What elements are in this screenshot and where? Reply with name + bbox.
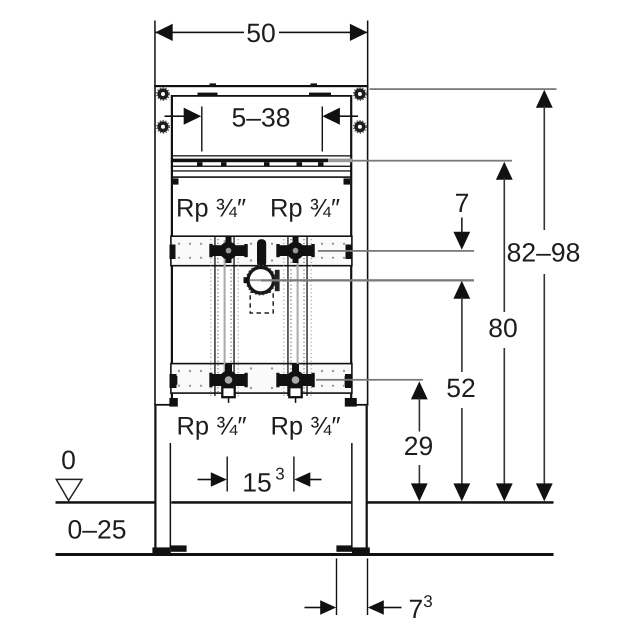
dimension 5-38: left tail line <box>165 115 185 117</box>
lower fitting left: left end cap <box>209 373 212 388</box>
left foot plate <box>152 547 170 553</box>
lower fitting right: left end cap <box>276 373 279 388</box>
leader from lower fitting (grey) <box>316 379 423 381</box>
support rail tab 1 <box>197 162 203 166</box>
lower plate left nub <box>170 374 177 388</box>
top fitting left: hub ring <box>226 248 232 254</box>
svg-text:52: 52 <box>446 373 475 403</box>
dimension 15: right arrowhead <box>294 472 310 486</box>
dimension 50: extension line left <box>154 21 156 87</box>
svg-text:Rp ¾″: Rp ¾″ <box>176 195 246 223</box>
dimension 7-3: left arrowhead <box>320 600 336 614</box>
dimension 52: up arrowhead <box>453 281 470 299</box>
support rail end tab right <box>344 178 351 184</box>
right leg inner line <box>351 443 353 549</box>
top fitting left: right end cap <box>244 244 247 257</box>
top fitting right: right end cap <box>311 244 314 257</box>
lower plate dots <box>178 367 345 389</box>
svg-text:Rp ¾″: Rp ¾″ <box>270 195 340 223</box>
top fitting left: stub above <box>226 237 232 244</box>
lower fitting right: hub ring <box>292 376 300 384</box>
leader from mixer circle (grey) <box>261 279 474 281</box>
frame left column outer line <box>154 85 156 406</box>
top fitting left: hub <box>220 242 238 260</box>
svg-text:50: 50 <box>246 18 275 48</box>
dimension 82-98: upper line <box>544 106 546 230</box>
support rail end tab left <box>172 178 179 184</box>
frame right column outer line <box>367 85 369 406</box>
dimension 82-98: down arrowhead <box>536 483 553 501</box>
level triangle symbol <box>56 479 82 500</box>
mixer circle left nub <box>244 277 249 283</box>
svg-text:80: 80 <box>488 313 517 343</box>
top fitting left: stub below <box>226 257 232 264</box>
upper plate right nub <box>346 245 352 260</box>
mixer circle right bracket <box>275 270 280 291</box>
dimension 5-38: right tail line <box>339 115 358 117</box>
lower fitting right: right end cap <box>312 373 315 388</box>
dimension 52: lower line <box>461 408 463 485</box>
top fitting right: stub below <box>293 257 299 264</box>
raw floor line <box>56 553 554 556</box>
finished floor line <box>56 501 156 504</box>
right rail body <box>287 237 307 396</box>
svg-text:29: 29 <box>404 431 433 461</box>
dimension 7: down arrowhead <box>453 232 470 250</box>
frame top clip left <box>198 93 218 96</box>
lower fitting left: stub above <box>225 364 232 372</box>
svg-text:3: 3 <box>423 592 432 611</box>
frame top nub right <box>311 83 318 86</box>
frame top inner line <box>171 95 351 97</box>
dimension 80: upper line <box>504 178 506 312</box>
lower fitting left: right end cap <box>245 373 248 388</box>
leader from frame top (grey) <box>370 88 557 90</box>
frame top edge <box>154 85 368 87</box>
rail dashed guides <box>211 239 311 396</box>
dimension 80: down arrowhead <box>496 483 513 501</box>
dimension 15: extension line left <box>227 457 228 492</box>
top fitting right: stub above <box>293 237 299 244</box>
dimension 7-3: extension line left <box>336 559 337 616</box>
lower fitting left: elbow <box>222 387 234 397</box>
top fitting left: wings <box>210 245 248 256</box>
dimension 29: up arrowhead <box>411 381 428 399</box>
dimension 52: upper line <box>461 297 463 372</box>
support rail bar: bottom line <box>171 176 352 178</box>
top fitting right: wings <box>277 245 315 256</box>
dimension 80: up arrowhead <box>496 162 513 180</box>
svg-text:15: 15 <box>242 467 271 497</box>
lower fitting left: hub <box>219 371 238 390</box>
lower fitting right: hub <box>286 371 305 390</box>
svg-text:Rp ¾″: Rp ¾″ <box>177 413 247 441</box>
lower plate right nub <box>345 374 352 388</box>
left column tab upper <box>171 376 178 385</box>
lower fitting right: wings <box>277 374 315 386</box>
screw top-left lower <box>157 121 170 134</box>
dimension 50: line left segment <box>155 32 244 34</box>
dimension 50: right arrowhead <box>350 24 368 41</box>
dimension 7: line <box>461 218 463 234</box>
left leg outer line <box>154 406 156 550</box>
lower fitting left: hub ring <box>225 376 233 384</box>
lower fitting left: stub below <box>228 398 230 403</box>
frame top clip right <box>309 93 331 96</box>
lower mounting plate <box>171 364 352 394</box>
leader from support rail (grey) <box>352 160 512 162</box>
dimension 15: extension line right <box>293 457 294 492</box>
upper mounting plate <box>171 236 352 266</box>
central faucet pipe <box>257 239 266 267</box>
svg-text:Rp ¾″: Rp ¾″ <box>271 413 341 441</box>
svg-text:7: 7 <box>455 188 470 218</box>
dimension 15: right tail <box>309 479 322 481</box>
dimension 15: left arrowhead <box>211 472 227 486</box>
lower fitting right: elbow <box>289 387 301 397</box>
support rail bar: lower line <box>171 170 352 171</box>
support rail bar: grey band right segment <box>328 159 352 163</box>
svg-text:0: 0 <box>61 445 76 475</box>
left column bottom cap <box>154 404 172 406</box>
support rail tab 2 <box>221 162 227 166</box>
dimension 5-38: left arrowhead <box>184 108 202 125</box>
right leg outer line <box>366 406 368 550</box>
right column bottom cap <box>351 404 368 406</box>
right foot block <box>336 545 352 551</box>
dimension 82-98: lower line <box>544 274 546 485</box>
lower fitting left: wings <box>210 374 248 386</box>
dimension 50: extension line right <box>367 21 369 87</box>
right column tab upper <box>345 376 352 385</box>
lower fitting right: stub above <box>292 364 299 372</box>
leader from top fitting (grey) <box>318 250 474 252</box>
dimension 7-3: extension line right <box>367 559 368 616</box>
dimension 29: lower line <box>419 465 421 485</box>
top fitting left: left end cap <box>209 244 212 257</box>
svg-text:3: 3 <box>275 464 284 483</box>
dimension 7-3: right tail <box>383 607 402 609</box>
dimension 52: down arrowhead <box>453 483 470 501</box>
left rail body <box>214 237 234 396</box>
dimension 7-3: left tail <box>305 607 322 609</box>
svg-text:82–98: 82–98 <box>507 238 581 268</box>
svg-text:5–38: 5–38 <box>232 103 291 133</box>
svg-text:0–25: 0–25 <box>68 515 127 545</box>
lower fitting right: stub below <box>295 398 297 403</box>
dimension 29: down arrowhead <box>411 483 428 501</box>
support rail tab 3 <box>264 162 270 166</box>
dimension 29: upper line <box>419 398 421 432</box>
top fitting right: left end cap <box>276 244 279 257</box>
mixer circle valve <box>248 267 274 293</box>
dimension 5-38: extension line right <box>322 107 323 152</box>
upper plate left nub <box>170 245 176 260</box>
left foot block <box>171 545 187 551</box>
dimension 15: left tail <box>198 479 212 481</box>
support rail tab 4 <box>297 162 303 166</box>
upper plate dots <box>178 243 345 262</box>
mixer circle valve: knurled halo <box>246 266 275 295</box>
dimension 5-38: extension line left <box>201 107 202 152</box>
support rail tab 5 <box>318 162 324 166</box>
screw top-left upper <box>157 88 170 101</box>
mixer circle slot <box>250 279 262 281</box>
dimension 5-38: right arrowhead <box>322 108 340 125</box>
dimension 50: left arrowhead <box>155 24 173 41</box>
support rail bar: top line <box>171 155 352 156</box>
dimension 50: line right segment <box>279 32 368 34</box>
support rail bar: mid line <box>171 166 352 167</box>
frame top nub left <box>210 83 217 86</box>
left leg inner line <box>170 443 172 549</box>
left column tab lower <box>169 398 177 407</box>
svg-text:7: 7 <box>409 594 424 624</box>
screw top-right upper <box>354 88 367 101</box>
support rail bar: thick black band <box>171 159 328 163</box>
frame left column inner line <box>171 95 173 406</box>
dimension 7-3: right arrowhead <box>368 600 384 614</box>
dimension 80: lower line <box>504 348 506 485</box>
screw top-right lower <box>354 121 367 134</box>
frame right column inner line <box>350 95 352 406</box>
top fitting right: hub <box>287 242 305 260</box>
dimension 82-98: up arrowhead <box>536 90 553 108</box>
right column tab lower <box>345 398 357 407</box>
right foot plate <box>352 547 370 553</box>
dashed box below mixer <box>250 292 273 313</box>
top fitting right: hub ring <box>293 248 299 254</box>
